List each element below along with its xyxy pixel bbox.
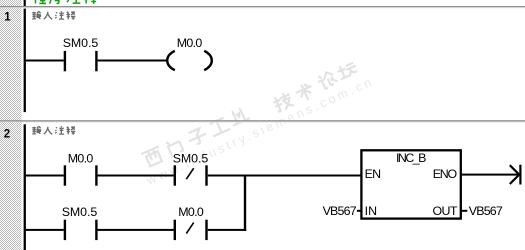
arrow terminal bar [519, 165, 521, 185]
arrow continuation at right edge [510, 165, 519, 184]
contact M0.0 NC (row2) left bar [174, 220, 176, 240]
wire: OUT pin stub [461, 210, 467, 212]
previous network rail stub [24, 0, 26, 6]
wire: rung2 NC contact to branch [208, 229, 247, 231]
contact SM0.5 (row2) right bar [95, 220, 97, 240]
wire: vertical branch junction [244, 175, 246, 231]
svg-text:SM0.5: SM0.5 [173, 152, 209, 166]
wire: net2 rung1 rail to contact M0.0 [26, 175, 64, 177]
network 1 left power rail [24, 9, 26, 113]
contact SM0.5 NC (row1) right bar [205, 165, 207, 185]
contact M0.0 NC (row2) slash [186, 223, 193, 234]
contact M0.0 (row1) left bar [64, 165, 66, 185]
svg-text:IN: IN [365, 204, 378, 218]
svg-text:1: 1 [4, 12, 11, 24]
previous network green comment 程序注释 (bottom half visible) [33, 0, 97, 4]
contact M0.0 (row1) right bar [95, 165, 97, 185]
coil M0.0 right paren [204, 51, 212, 70]
wire: net2 rung2 rail to contact SM0.5 [26, 229, 64, 231]
wire: net2 rung1 from NC contact to INC_B box [208, 175, 361, 177]
svg-text:VB567: VB567 [323, 204, 357, 218]
svg-text:M0.0: M0.0 [177, 36, 203, 50]
separator above network 2 [0, 120, 525, 121]
wire: contact to coil [98, 60, 168, 62]
wire: between contacts row1 [98, 175, 174, 177]
svg-text:OUT: OUT [433, 204, 458, 218]
function box INC_B [361, 150, 460, 218]
contact SM0.5 NC (row1) left bar [174, 165, 176, 185]
network 1 comment 输入注释 [32, 11, 75, 19]
coil M0.0 left paren [167, 51, 175, 70]
contact SM0.5 (row2) left bar [64, 220, 66, 240]
svg-text:INC_B: INC_B [396, 151, 427, 165]
contact M0.0 NC (row2) right bar [205, 220, 207, 240]
network number gutter hatch [0, 0, 22, 250]
svg-text:ENO: ENO [433, 167, 458, 181]
svg-text:2: 2 [4, 129, 10, 141]
svg-text:M0.0: M0.0 [178, 205, 204, 219]
contact SM0.5 left bar [64, 51, 66, 71]
svg-text:EN: EN [365, 167, 382, 181]
contact SM0.5 NC (row1) slash [186, 168, 193, 179]
contact SM0.5 right bar [95, 51, 97, 71]
wire: ENO output to right edge [461, 174, 519, 176]
wire: between contacts row2 [98, 229, 174, 231]
svg-text:M0.0: M0.0 [68, 152, 94, 166]
svg-text:SM0.5: SM0.5 [63, 36, 99, 50]
svg-text:VB567: VB567 [469, 204, 503, 218]
watermark chinese 西门子工业 技术论坛 [142, 61, 358, 167]
network 2 comment 输入注释 [32, 126, 75, 134]
network 2 left power rail [24, 124, 26, 250]
separator above network 1 [0, 6, 525, 7]
svg-text:SM0.5: SM0.5 [62, 205, 98, 219]
wire: IN pin stub [357, 210, 362, 212]
wire: network 1 rung from rail to contact [26, 60, 64, 62]
